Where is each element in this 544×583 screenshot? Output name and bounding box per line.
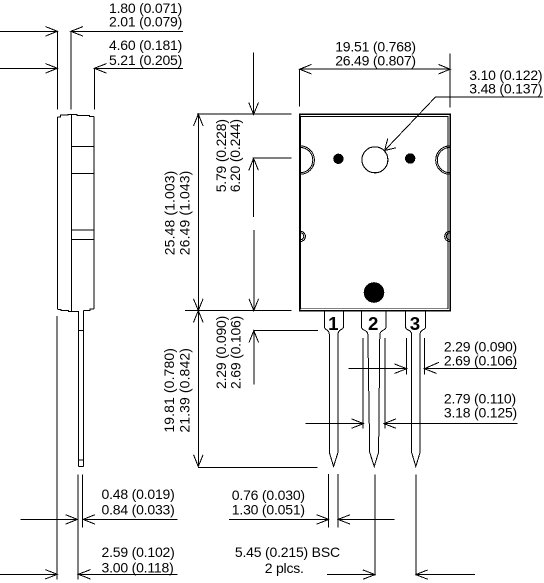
dim 25.48/26.49 and 19.81/21.39 vertical line xyxy=(194,114,204,466)
svg-text:2.59 (0.102): 2.59 (0.102) xyxy=(102,544,175,560)
front view small right notch xyxy=(445,231,450,241)
svg-text:21.39 (0.842): 21.39 (0.842) xyxy=(176,348,192,433)
side view body outline xyxy=(57,114,94,311)
svg-text:6.20 (0.244): 6.20 (0.244) xyxy=(227,119,243,192)
side view mold line 4 xyxy=(71,239,94,241)
dim 5.79/6.20 vertical xyxy=(249,52,292,217)
svg-text:4.60 (0.181): 4.60 (0.181) xyxy=(109,37,182,53)
dim 2.79/3.18 lead2 width line xyxy=(305,419,517,428)
front view lead 2 xyxy=(362,311,387,467)
side view body-left extension line xyxy=(56,316,58,580)
front view inner outline xyxy=(301,117,449,309)
svg-text:0.48 (0.019): 0.48 (0.019) xyxy=(102,486,175,502)
lead 3 extension lines xyxy=(406,338,408,375)
svg-text:3: 3 xyxy=(410,313,420,334)
svg-text:3.48 (0.137): 3.48 (0.137) xyxy=(469,80,542,96)
side view lead extension lines xyxy=(77,474,79,579)
dim 2.29/2.69 shoulder length vertical xyxy=(249,230,318,385)
side view mold line 1 xyxy=(71,145,94,147)
lead 2 bottom extension line xyxy=(374,474,376,575)
svg-text:2: 2 xyxy=(368,313,378,334)
svg-text:5.45 (0.215) BSC: 5.45 (0.215) BSC xyxy=(235,544,340,560)
side view lead xyxy=(78,310,83,466)
extension line pkg top left xyxy=(197,113,292,115)
dim 5.45 BSC line xyxy=(327,570,475,579)
front view big left notch xyxy=(300,146,314,174)
dim 2.59/3.00 line xyxy=(0,570,178,579)
extension line lead tips left xyxy=(198,466,318,468)
front view outer outline xyxy=(300,114,451,311)
svg-text:26.49 (1.043): 26.49 (1.043) xyxy=(177,171,193,256)
front view big right notch xyxy=(436,146,450,174)
front view mounting hole xyxy=(362,147,388,173)
side view mold line 3 xyxy=(71,229,94,231)
lead 3 bottom extension line xyxy=(415,474,417,575)
side view mold line 2 xyxy=(71,172,94,174)
dim 4.60/5.21 line xyxy=(0,64,183,110)
svg-text:3.18 (0.125): 3.18 (0.125) xyxy=(444,405,517,421)
svg-text:5.21 (0.205): 5.21 (0.205) xyxy=(109,52,182,68)
dim 0.76/1.30 line xyxy=(229,515,395,524)
front view lead 1 xyxy=(324,311,343,467)
svg-text:2.69 (0.106): 2.69 (0.106) xyxy=(444,352,517,368)
dim 0.48/0.84 line xyxy=(21,515,178,524)
svg-text:1: 1 xyxy=(328,313,338,334)
extension line pkg bottom left xyxy=(185,310,292,312)
svg-text:3.00 (0.118): 3.00 (0.118) xyxy=(102,559,174,575)
front view small left notch xyxy=(300,231,305,241)
svg-text:2 plcs.: 2 plcs. xyxy=(265,560,304,576)
svg-text:26.49 (0.807): 26.49 (0.807) xyxy=(335,53,416,69)
svg-text:1.30 (0.051): 1.30 (0.051) xyxy=(232,501,305,517)
dim 2.29/2.69 lead3 width line xyxy=(348,362,517,373)
dim 19.51/26.49 width line xyxy=(300,54,451,108)
front view left dot xyxy=(333,154,343,164)
svg-text:2.69 (0.106): 2.69 (0.106) xyxy=(227,316,243,389)
front view lead 3 xyxy=(406,311,426,467)
lead 2 extension lines xyxy=(362,338,364,429)
front view right dot xyxy=(405,153,415,163)
svg-text:0.84 (0.033): 0.84 (0.033) xyxy=(102,502,175,518)
lead 1 tip extension lines xyxy=(328,474,330,527)
dim 1.80/2.01 line xyxy=(0,27,183,110)
svg-text:25.48 (1.003): 25.48 (1.003) xyxy=(161,171,177,256)
svg-text:2.01 (0.079): 2.01 (0.079) xyxy=(109,14,182,30)
front view bottom dot xyxy=(364,282,385,303)
dim 3.10/3.48 hole leader xyxy=(385,97,543,151)
svg-text:19.81 (0.780): 19.81 (0.780) xyxy=(161,348,177,433)
